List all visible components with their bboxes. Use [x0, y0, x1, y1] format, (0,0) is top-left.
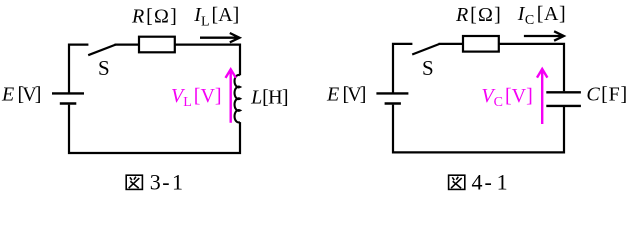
svg-text:IC[A]: IC[A]	[517, 3, 567, 28]
label R[ohm] right	[455, 4, 502, 26]
svg-text:E[V]: E[V]	[1, 83, 41, 105]
wire: capacitor to bottom-right corner, bottom run, up to battery minus	[393, 105, 564, 153]
svg-text:S: S	[98, 56, 110, 80]
svg-text:S: S	[422, 56, 434, 80]
label S (switch)	[98, 56, 110, 80]
svg-text:E[V]: E[V]	[326, 83, 366, 105]
label IL[A]	[193, 4, 239, 29]
label R[ohm] top	[131, 5, 178, 27]
voltage arrow VC (magenta, up)	[537, 69, 547, 124]
label L[H]	[250, 87, 288, 109]
label E[V]	[1, 83, 41, 105]
label S (switch) right	[422, 56, 434, 80]
inductor L (4 loops)	[235, 75, 240, 122]
label E[V] right	[326, 83, 366, 105]
wire: switch to resistor	[439, 43, 464, 45]
capacitor C bottom plate	[546, 105, 581, 107]
battery E1 long plate (+)	[52, 92, 84, 94]
svg-text:VL[V]: VL[V]	[171, 85, 222, 110]
svg-text:R[Ω]: R[Ω]	[131, 5, 178, 27]
voltage arrow VL (magenta, up)	[226, 69, 236, 122]
label VC[V] (magenta)	[481, 85, 532, 110]
switch S1 blade	[88, 45, 115, 56]
label C[F]	[586, 84, 628, 106]
current arrow IL	[200, 33, 240, 42]
wire: switch to resistor	[115, 43, 140, 45]
wire: inductor to bottom-right corner, bottom run, up to battery minus	[69, 105, 240, 153]
resistor R (box)	[139, 37, 175, 53]
resistor R2 (box)	[463, 36, 499, 52]
wire: resistor to top-right corner, down to capacitor	[499, 44, 564, 91]
caption: zu (figure) glyph 3-1	[126, 175, 142, 189]
svg-text:L[H]: L[H]	[250, 87, 288, 109]
battery E1 short plate (-)	[60, 102, 77, 105]
switch S2 blade	[412, 44, 439, 55]
caption text 3-1	[150, 170, 183, 195]
svg-text:C[F]: C[F]	[586, 84, 628, 106]
svg-text:IL[A]: IL[A]	[193, 4, 239, 29]
svg-text:4-1: 4-1	[472, 170, 508, 195]
svg-text:VC[V]: VC[V]	[481, 85, 532, 110]
battery E2 short plate (-)	[385, 102, 401, 105]
wire: resistor to top-right corner, down to inductor	[175, 45, 240, 76]
caption text 4-1	[472, 170, 508, 195]
label IC[A]	[517, 3, 567, 28]
wire: top-left stub from corner to switch	[393, 44, 412, 93]
svg-text:R[Ω]: R[Ω]	[455, 4, 502, 26]
capacitor C top plate	[546, 91, 581, 93]
svg-text:3-1: 3-1	[150, 170, 183, 195]
current arrow IC	[524, 31, 564, 40]
caption: zu (figure) glyph 4-1	[449, 175, 465, 189]
battery E2 long plate (+)	[376, 92, 408, 94]
label VL[V] (magenta)	[171, 85, 222, 110]
wire: top-left stub from corner to switch	[69, 45, 88, 93]
